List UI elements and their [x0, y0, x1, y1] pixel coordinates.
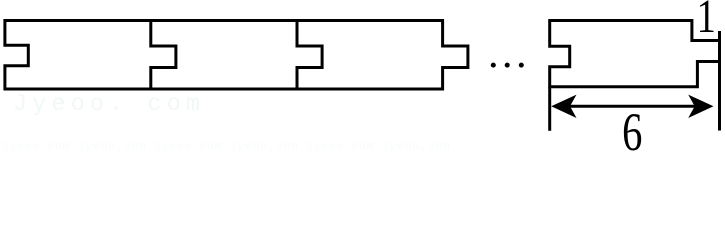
svg-text:Jyeoo. com: Jyeoo. com	[13, 91, 205, 118]
dimension shaft	[560, 105, 702, 108]
right extension line	[718, 31, 721, 131]
svg-text:jyeoo.com jyeoo.com jyeoo.com: jyeoo.com jyeoo.com jyeoo.com jyeoo.com …	[2, 141, 450, 153]
junction line 1 with tab	[151, 19, 176, 90]
strip of three interlocking boards: outline	[5, 21, 468, 90]
junction line 2 with tab	[297, 19, 322, 90]
svg-text:1: 1	[697, 0, 716, 43]
last board outline with tab and step	[550, 21, 720, 87]
svg-text:6: 6	[622, 102, 642, 154]
left extension line	[548, 87, 551, 131]
ellipsis dot 1	[491, 63, 496, 68]
ellipsis dot 2	[505, 63, 510, 68]
left arrowhead	[551, 95, 576, 118]
right arrowhead	[688, 95, 713, 118]
ellipsis dot 3	[519, 63, 524, 68]
